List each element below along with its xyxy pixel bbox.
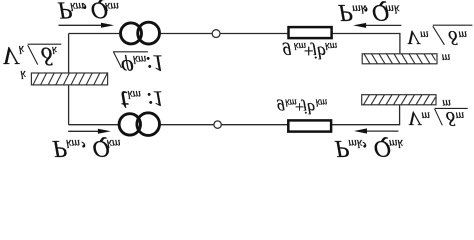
svg-text:jb: jb (301, 99, 315, 116)
svg-text:m: m (420, 28, 429, 42)
svg-text:m: m (442, 52, 451, 66)
svg-text:mk: mk (389, 137, 404, 151)
impedance box top g+jb (289, 27, 332, 38)
label angle phi_km : 1 (top transformer ratio, mirrored) (121, 50, 164, 80)
arrow P_km bottom-left (points right) (68, 129, 111, 134)
bus k busbar (hatched) (31, 73, 107, 85)
transformer top (ideal, two circles) (121, 22, 160, 44)
svg-text:km: km (66, 137, 80, 151)
label m (bus m bottom, mirrored) (442, 97, 451, 111)
svg-text:g: g (283, 43, 292, 63)
svg-text:km: km (325, 40, 338, 51)
svg-text:mk: mk (385, 2, 400, 16)
svg-text:1: 1 (153, 50, 165, 75)
label k (bus k, mirrored) (20, 68, 26, 82)
label t_km : 1 (bottom transformer ratio, mirrored) (120, 85, 164, 116)
label P_km, Q_km bottom-left (mirrored) (52, 135, 121, 165)
label g_km + jb_km bottom box (mirrored) (277, 96, 327, 116)
svg-text:km: km (107, 137, 121, 151)
svg-text:mk: mk (348, 137, 363, 151)
bus m busbar bottom-right (hatched) (362, 95, 436, 105)
node p bottom (small circle) (214, 121, 221, 128)
svg-text:km: km (105, 0, 119, 14)
transformer bottom (ideal, two circles) (119, 113, 159, 136)
svg-text:δ: δ (41, 41, 53, 68)
wire: top rail (69, 34, 400, 54)
bus m busbar top-right (hatched) (362, 54, 437, 64)
impedance box bottom g+jb (288, 120, 331, 131)
arrow P_mk bottom-right (points left) (354, 128, 399, 133)
angle symbol for V_k (28, 44, 62, 64)
svg-text:m: m (456, 110, 465, 124)
arrow P_km top-left (points right) (59, 23, 115, 28)
label m (bus m top, mirrored) (442, 52, 451, 66)
label P_mk, Q_mk top-right (mirrored) (337, 0, 400, 29)
angle symbol for V_m top-right (433, 25, 473, 45)
label P_mk, Q_mk bottom-right (mirrored) (334, 135, 404, 165)
svg-text:k: k (19, 43, 25, 57)
svg-text:m: m (458, 28, 467, 42)
svg-text:P: P (337, 0, 353, 25)
svg-text:km: km (316, 96, 328, 107)
svg-text:,: , (363, 4, 369, 29)
svg-text:jb: jb (310, 43, 326, 63)
svg-text:,: , (81, 140, 87, 159)
wire: left vertical bus-k riser (68, 34, 70, 125)
angle symbol for phi_km (113, 52, 148, 68)
wire: bottom rail (69, 105, 400, 125)
svg-text:,: , (82, 1, 88, 26)
label V_m angle delta_m bottom-right (mirrored) (408, 107, 465, 129)
label V_m angle delta_m top-right (mirrored) (407, 26, 468, 48)
svg-text:m: m (421, 110, 430, 124)
svg-text:k: k (20, 68, 26, 82)
svg-text:g: g (277, 99, 285, 116)
svg-text:,: , (362, 140, 368, 159)
svg-text:km: km (133, 53, 146, 65)
svg-text:1: 1 (153, 87, 164, 112)
svg-text:m: m (442, 97, 451, 111)
angle symbol for V_m bottom-right (435, 108, 468, 125)
label g_km + jb_km top box (mirrored) (283, 40, 338, 62)
label V_k angle delta_k (mirrored) (2, 41, 58, 68)
node p top (small circle) (212, 30, 220, 38)
label P_km, Q_km top-left (mirrored) (57, 0, 119, 26)
svg-text:δ: δ (448, 26, 458, 48)
arrow P_mk top-right (points left) (353, 23, 401, 28)
svg-text:km: km (128, 88, 141, 100)
